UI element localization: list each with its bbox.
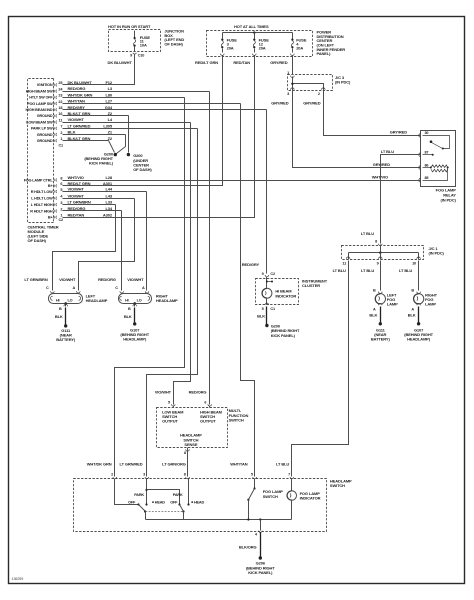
svg-text:LAMP: LAMP [387, 302, 398, 307]
headlamp switch dashed box [74, 479, 327, 532]
svg-text:IGNITION: IGNITION [37, 83, 53, 87]
svg-text:(IN PDC): (IN PDC) [429, 251, 445, 256]
svg-text:CLUSTER: CLUSTER [302, 283, 320, 288]
power distribution center dashed box [207, 31, 313, 57]
svg-text:RED/TAN: RED/TAN [233, 60, 250, 65]
svg-text:OF DASH): OF DASH) [133, 167, 152, 172]
svg-text:LAMP: LAMP [425, 302, 436, 307]
svg-text:LT BLU: LT BLU [361, 231, 374, 236]
svg-text:PARK: PARK [134, 493, 144, 497]
svg-text:30: 30 [425, 131, 429, 135]
svg-text:HTLT SW OFF: HTLT SW OFF [29, 96, 53, 100]
svg-text:9: 9 [262, 272, 264, 276]
svg-text:L43: L43 [105, 193, 112, 198]
svg-text:B: B [59, 307, 62, 311]
fog switch lower contact to rail [248, 500, 250, 520]
svg-text:LO: LO [137, 298, 142, 302]
svg-text:B: B [128, 307, 131, 311]
svg-text:L4: L4 [108, 117, 113, 122]
svg-text:BLK: BLK [68, 130, 76, 135]
J/C1 pin 9 [379, 257, 383, 259]
svg-text:DK BLU/WHT: DK BLU/WHT [108, 60, 133, 65]
svg-text:9: 9 [130, 54, 132, 58]
svg-text:1: 1 [287, 71, 289, 75]
ground G200 under center of dash dot [127, 153, 130, 156]
C2 pin 8 FOG LAMP CTRL wire WHT/VIO L28 [24, 175, 421, 182]
relay pin 30 [419, 134, 421, 138]
switch 2 blade tip to rail [183, 512, 185, 520]
C1 pin 1 GROUND wire BLK/LT GRN Z2 [37, 136, 113, 143]
C2 pin 5 R HDLT LOW wire VIO/WHT L44 [31, 187, 147, 194]
hi beam indicator lamp [262, 288, 272, 298]
wire L44 VIO/WHT row5 down to right headlamp pin A [146, 192, 148, 291]
svg-text:23: 23 [58, 94, 62, 98]
svg-text:L44: L44 [105, 187, 112, 192]
svg-text:L80: L80 [105, 92, 112, 97]
svg-text:L3: L3 [108, 86, 113, 91]
wire L27 WHT/TAN row22 down jog to headlamp switch pin 5 [241, 104, 255, 477]
wire BLK left headlamp to ground [65, 308, 67, 325]
svg-text:SENSE: SENSE [184, 442, 197, 447]
svg-text:3: 3 [287, 92, 289, 96]
svg-text:11: 11 [342, 261, 346, 265]
wire LT BLU J/C1 pin9 to left fog lamp [380, 261, 382, 291]
svg-text:OFF: OFF [170, 501, 178, 505]
svg-text:136259: 136259 [12, 577, 24, 581]
svg-text:BLK: BLK [408, 312, 416, 317]
fuse F11 element [134, 31, 136, 52]
wire G34 RED/GRY row18 down to cluster pin 9 [266, 110, 268, 274]
J/C3 pin 2 [322, 88, 326, 90]
svg-text:WHT/DK GRN: WHT/DK GRN [68, 92, 93, 97]
fog lamp switch blade [249, 489, 255, 500]
svg-text:1: 1 [60, 137, 62, 141]
svg-text:C2: C2 [59, 218, 64, 222]
svg-text:BLK: BLK [124, 314, 132, 319]
svg-text:BLK: BLK [369, 312, 377, 317]
svg-text:WHT/DK GRN: WHT/DK GRN [87, 462, 112, 467]
wire LT GRN/ORG MFS pin8 to headlamp switch pin 8 [187, 448, 189, 477]
wire L43 VIO/WHT row4 jog to left headlamp pin A [79, 199, 135, 291]
fuse F12 element [253, 33, 257, 56]
svg-text:WHT/VIO: WHT/VIO [68, 175, 84, 180]
svg-text:PARK: PARK [173, 493, 183, 497]
fog lamp indicator lamp [287, 491, 297, 501]
wire BLK right headlamp to ground [134, 308, 136, 323]
svg-text:3: 3 [143, 473, 145, 477]
wire indicator to cluster pin 5 [266, 299, 268, 305]
svg-text:PANEL): PANEL) [317, 51, 332, 56]
ground G200 behind right kick panel dot [114, 153, 117, 156]
svg-text:RED/GRY: RED/GRY [242, 262, 260, 267]
wire GRY/RED J/C3 pin3 to relay pin 86 [293, 91, 421, 168]
mechanical gang link dashed [146, 511, 184, 513]
svg-text:2: 2 [60, 207, 62, 211]
C1 pin 11 LOW BEAM SW wire VIO/WHT L4 [26, 117, 190, 124]
ground G111 dot (near battery) [64, 324, 67, 327]
svg-text:BLK: BLK [55, 314, 63, 319]
C1 pin 2 GROUND wire BLK Z1 [37, 130, 126, 137]
junction connector J/C 1 dashed box [342, 246, 424, 260]
svg-text:(IN PDC): (IN PDC) [335, 80, 351, 85]
svg-text:FOG LAMP SW: FOG LAMP SW [27, 102, 53, 106]
ground G200 dot behind right kick panel (cluster) [265, 324, 268, 327]
svg-text:7: 7 [288, 473, 290, 477]
J/C1 pin 11 [346, 257, 350, 259]
headlamp switch pin 4 [259, 531, 263, 533]
bridge wire pin3 to switch 2 pivot [147, 490, 180, 505]
svg-text:GRY/RED: GRY/RED [373, 162, 390, 167]
C2 pin 1 B+ wire RED/TAN A302 [48, 212, 255, 219]
svg-text:A: A [142, 286, 145, 290]
wire LT BLU relay 87 to J/C1 pin 8 [381, 155, 421, 244]
wire L4 VIO/WHT row11 down jog to MFS pin 5 [174, 123, 191, 405]
ground G107 dot behind right headlamp (fog) [417, 322, 420, 325]
wire LT BLU J/C1 pin11 jog to headlamp switch pin 7 [292, 261, 349, 477]
wire Z2 row16 to ground G200 dot2 [128, 116, 130, 153]
svg-text:C2: C2 [270, 272, 275, 276]
C1 pin 7 PARK LP SW wire LT GRN/RED L305 [31, 123, 198, 130]
svg-text:5: 5 [262, 307, 264, 311]
svg-text:10A: 10A [140, 43, 147, 48]
svg-text:85: 85 [425, 176, 429, 180]
wire L305 LT GRN/RED row7 down jog to headlamp switch pin 3 [147, 129, 198, 477]
svg-text:RED/ORG: RED/ORG [189, 389, 207, 394]
svg-text:OUTPUT: OUTPUT [200, 419, 216, 424]
svg-text:RED/ORG: RED/ORG [98, 277, 116, 282]
svg-text:Z1: Z1 [108, 130, 113, 135]
svg-text:B+: B+ [48, 184, 54, 188]
wire L33 LT GRN/BRN row3 jog to left headlamp pin C [53, 205, 116, 291]
svg-text:4: 4 [255, 532, 258, 536]
svg-text:BLK: BLK [257, 313, 265, 318]
svg-text:(IN PDC): (IN PDC) [441, 198, 457, 203]
C2 pin 2 R HDLT HIGH wire RED/ORG L34 [30, 206, 121, 213]
headlamp switch internal: pin2 feed to park/head switch 1 [115, 479, 139, 505]
svg-text:2: 2 [60, 131, 62, 135]
svg-text:8: 8 [375, 239, 377, 243]
svg-text:HOT AT ALL TIMES: HOT AT ALL TIMES [234, 24, 269, 29]
wire WHT/VIO row8 L28 to relay pin 85 [63, 180, 421, 182]
svg-text:BLK/ORG: BLK/ORG [239, 545, 257, 550]
svg-text:LT BLU: LT BLU [381, 149, 394, 154]
svg-text:5: 5 [251, 473, 253, 477]
svg-text:L27: L27 [105, 99, 112, 104]
svg-text:FOG LAMP CTRL: FOG LAMP CTRL [24, 178, 54, 182]
svg-text:10: 10 [412, 261, 416, 265]
J/C3 pin 3 [291, 88, 295, 90]
wire pin8 into switch area [188, 479, 190, 505]
bus bar hot at all times [223, 32, 293, 34]
svg-text:LT GRN/RED: LT GRN/RED [120, 462, 143, 467]
wire junction down to pin 4 [260, 520, 262, 531]
svg-text:RED/TAN: RED/TAN [68, 212, 85, 217]
wire indicator bottom to rail [291, 501, 293, 520]
C1 pin 18 HIGH BEAM IND wire RED/GRY G34 [26, 105, 267, 112]
svg-text:8: 8 [184, 451, 186, 455]
svg-text:PARK LP SW: PARK LP SW [31, 127, 53, 131]
svg-text:VIO/WHT: VIO/WHT [68, 187, 85, 192]
node J/C3 junction dot [291, 83, 293, 85]
svg-text:HOT IN RUN OR START: HOT IN RUN OR START [108, 24, 151, 29]
svg-text:C1: C1 [270, 307, 275, 311]
C2 pin 4 L HDLT LOW wire VIO/WHT L43 [31, 193, 134, 200]
J/C3 internal bus [292, 77, 294, 91]
left fog lamp pin A [379, 303, 383, 305]
J/C3 pin 1 [291, 76, 295, 78]
svg-text:LT BLU: LT BLU [276, 462, 289, 467]
svg-text:8: 8 [60, 176, 62, 180]
svg-text:VIO/WHT: VIO/WHT [127, 277, 144, 282]
C1 pin 16 GROUND wire BLK/LT GRN Z2 [37, 111, 129, 118]
svg-text:VIO/WHT: VIO/WHT [68, 193, 85, 198]
svg-text:GROUND: GROUND [37, 133, 53, 137]
svg-text:HIGH BEAM SW: HIGH BEAM SW [26, 89, 53, 93]
right fog lamp E4 [413, 294, 423, 304]
wire pin7 to fog lamp indicator [291, 479, 293, 491]
wire L3 RED/ORG row24 down to MFS pin 6 [209, 92, 211, 405]
fog lamp relay K1 box [421, 131, 456, 187]
C2 pin 6 B+ wire RED/LT GRN A301 [48, 181, 223, 188]
C2 pin 3 L HDLT HIGH wire LT GRN/BRN L33 [31, 200, 116, 207]
relay pin 86 [419, 166, 421, 170]
wire Z2 row1 diagonal to ground G200 dot1 [109, 141, 115, 153]
svg-text:INDICATOR: INDICATOR [300, 496, 321, 501]
switch 1 blade [139, 505, 146, 512]
C1 pin 25 IGNITION wire DK BLU/WHT F12 [37, 80, 134, 87]
node cluster internal dots [266, 281, 268, 283]
svg-text:WHT/TAN: WHT/TAN [230, 462, 248, 467]
J/C1 internal bus [380, 245, 382, 253]
common rail to pin 4 junction [146, 519, 292, 521]
svg-text:L305: L305 [103, 123, 113, 128]
relay pin 85 [419, 178, 421, 182]
svg-text:11: 11 [59, 118, 63, 122]
svg-text:HI: HI [125, 298, 129, 302]
svg-text:B: B [373, 289, 376, 293]
svg-text:GRY/RED: GRY/RED [390, 130, 407, 135]
svg-text:HEADLAMP): HEADLAMP) [123, 337, 147, 342]
svg-text:WHT/TAN: WHT/TAN [68, 99, 86, 104]
svg-text:6: 6 [204, 400, 206, 404]
wire cluster pin9 to indicator [266, 277, 268, 289]
svg-text:SWITCH: SWITCH [330, 483, 345, 488]
C1 pin 22 FOG LAMP SW wire WHT/TAN L27 [27, 99, 240, 106]
svg-text:GRY/RED: GRY/RED [270, 60, 287, 65]
C1 pin 24 HIGH BEAM SW wire RED/ORG L3 [26, 86, 210, 93]
svg-text:LT GRN/RED: LT GRN/RED [68, 123, 91, 128]
svg-text:OF DASH): OF DASH) [164, 42, 183, 47]
svg-text:9: 9 [377, 261, 379, 265]
relay internal switch contact 30-87 [423, 136, 450, 156]
wire GRY/RED fuse4 to J/C3 pin 1 [292, 56, 294, 75]
svg-text:LT BLU: LT BLU [361, 268, 374, 273]
svg-text:OF DASH): OF DASH) [28, 238, 47, 243]
svg-text:LOW BEAM SW: LOW BEAM SW [26, 120, 53, 124]
svg-text:A302: A302 [103, 212, 113, 217]
label HEAD switch2 with contact dot [191, 501, 193, 503]
svg-text:HEADLAMP: HEADLAMP [86, 298, 108, 303]
wire DK BLU/WHT fuse11 to CTM pin 25 [63, 55, 135, 85]
svg-text:LT BLU: LT BLU [333, 268, 346, 273]
svg-text:RED/ORG: RED/ORG [68, 86, 86, 91]
svg-text:HEADLAMP): HEADLAMP) [407, 337, 431, 342]
svg-text:4: 4 [60, 195, 63, 199]
svg-text:GRY/RED: GRY/RED [303, 100, 320, 105]
wire RED/LT GRN fuse3 to CTM pin 6 A301 [63, 56, 223, 186]
wire RED/TAN fuse12 to CTM pin 1 A302 [63, 56, 255, 218]
wire L80 WHT/DK GRN row23 down jog to headlamp switch pin 2 [115, 98, 185, 477]
svg-text:R HDLT HIGH: R HDLT HIGH [30, 209, 53, 213]
svg-text:LT GRN/ORG: LT GRN/ORG [162, 462, 186, 467]
multi-function switch dashed box [157, 408, 228, 448]
svg-text:HEAD: HEAD [194, 501, 204, 505]
wire BLK/ORG pin4 to ground G206 [260, 533, 262, 557]
switch 2 blade [180, 505, 184, 512]
switch 1 blade tip to rail [145, 512, 147, 520]
svg-text:2: 2 [318, 92, 320, 96]
fuse F4 element [291, 33, 295, 56]
svg-text:C: C [46, 286, 49, 290]
svg-text:LT GRN/BRN: LT GRN/BRN [68, 200, 91, 205]
svg-text:8: 8 [184, 473, 186, 477]
svg-text:7: 7 [60, 125, 62, 129]
junction connector J/C 3 dashed box [288, 75, 333, 91]
svg-text:GRY/RED: GRY/RED [271, 100, 288, 105]
svg-text:GROUND: GROUND [37, 139, 53, 143]
svg-text:HEADLAMP: HEADLAMP [156, 298, 178, 303]
svg-text:20A: 20A [227, 45, 234, 50]
svg-text:C: C [115, 286, 118, 290]
left headlamp E1 [46, 286, 83, 311]
svg-text:HIGH BEAM IND: HIGH BEAM IND [26, 108, 53, 112]
wire BLK left fog lamp to ground G111 [380, 307, 382, 323]
connector C10 pin 9 [133, 53, 137, 54]
svg-text:A: A [411, 307, 414, 311]
svg-text:OFF: OFF [128, 501, 136, 505]
junction box J/B (left end of dash) dashed box [109, 30, 161, 52]
svg-text:22: 22 [58, 100, 62, 104]
fuse F3 element [221, 33, 225, 56]
wire Z1 row2 to ground G200 dot1 [125, 135, 127, 147]
svg-text:86: 86 [425, 163, 429, 167]
svg-text:6: 6 [60, 182, 62, 186]
node junction dot on bus [253, 31, 255, 33]
svg-text:2: 2 [111, 473, 113, 477]
svg-text:LO: LO [68, 298, 73, 302]
svg-text:1: 1 [60, 214, 62, 218]
wire GRY/RED J/C3 pin2 to relay pin 30 [324, 91, 421, 136]
wire BLK right fog lamp to ground G107 [418, 307, 420, 323]
svg-text:RED/LT GRN: RED/LT GRN [195, 60, 218, 65]
wire L34 RED/ORG row2 down to right headlamp pin C [121, 211, 123, 291]
svg-text:L33: L33 [105, 200, 112, 205]
instrument cluster dashed box [256, 279, 299, 305]
left fog lamp E3 [375, 294, 385, 304]
svg-text:87: 87 [425, 151, 429, 155]
svg-text:HEAD: HEAD [155, 501, 165, 505]
svg-text:BATTERY): BATTERY) [371, 337, 391, 342]
svg-text:B: B [411, 289, 414, 293]
svg-text:VIO/WHT: VIO/WHT [68, 117, 85, 122]
svg-text:A: A [72, 286, 75, 290]
svg-text:5: 5 [60, 188, 62, 192]
svg-text:C10: C10 [138, 54, 144, 58]
C1 pin 23 HTLT SW OFF wire WHT/DK GRN L80 [29, 92, 184, 99]
right headlamp E2 [115, 286, 151, 311]
svg-text:KICK PANEL): KICK PANEL) [271, 333, 296, 338]
svg-text:WHT/VIO: WHT/VIO [372, 175, 388, 180]
svg-text:A: A [373, 307, 376, 311]
svg-text:C1: C1 [59, 143, 64, 147]
svg-text:L28: L28 [105, 175, 112, 180]
central timer module dashed outline [28, 79, 54, 223]
svg-text:HI: HI [56, 298, 60, 302]
fog lamp switch: pin5 feed [254, 479, 256, 489]
label HEAD switch1 with contact dot [152, 501, 154, 503]
svg-text:GROUND: GROUND [37, 114, 53, 118]
svg-text:3: 3 [60, 201, 62, 205]
ground G107 dot (behind right headlamp) [133, 322, 136, 325]
J/C1 pin 10 [417, 257, 421, 259]
svg-text:B+: B+ [48, 216, 54, 220]
svg-text:16: 16 [58, 112, 62, 116]
svg-text:BATTERY): BATTERY) [56, 337, 76, 342]
svg-text:KICK PANEL): KICK PANEL) [248, 570, 273, 575]
svg-text:SWITCH: SWITCH [263, 494, 278, 499]
svg-text:18: 18 [58, 106, 62, 110]
svg-text:VIO/WHT: VIO/WHT [155, 389, 172, 394]
svg-text:VIO/WHT: VIO/WHT [59, 277, 76, 282]
wire BLK cluster to ground G200 [266, 307, 268, 325]
wire LT BLU J/C1 pin10 to right fog lamp [418, 261, 420, 291]
right fog lamp pin A [417, 303, 421, 305]
svg-text:R HDLT LOW: R HDLT LOW [31, 190, 53, 194]
relay internal coil 86-85 [423, 165, 449, 181]
svg-text:20A: 20A [296, 45, 303, 50]
svg-text:LT BLU: LT BLU [399, 268, 412, 273]
svg-text:L HDLT HIGH: L HDLT HIGH [31, 203, 53, 207]
svg-text:L HDLT LOW: L HDLT LOW [31, 197, 53, 201]
svg-text:20A: 20A [259, 45, 266, 50]
relay pin 87 [419, 153, 421, 157]
ground G206 dot [259, 556, 262, 559]
svg-text:OUTPUT: OUTPUT [162, 419, 178, 424]
ground G111 dot near battery (fog) [379, 322, 382, 325]
svg-text:24: 24 [58, 87, 63, 91]
svg-text:LT GRN/BRN: LT GRN/BRN [24, 277, 47, 282]
svg-text:KICK PANEL): KICK PANEL) [89, 161, 114, 166]
svg-text:INDICATOR: INDICATOR [275, 293, 296, 298]
svg-text:25: 25 [58, 81, 62, 85]
headlamp switch internal: pin3 wire with park contact [146, 479, 148, 505]
svg-text:SWITCH: SWITCH [229, 417, 244, 422]
svg-text:5: 5 [168, 400, 170, 404]
